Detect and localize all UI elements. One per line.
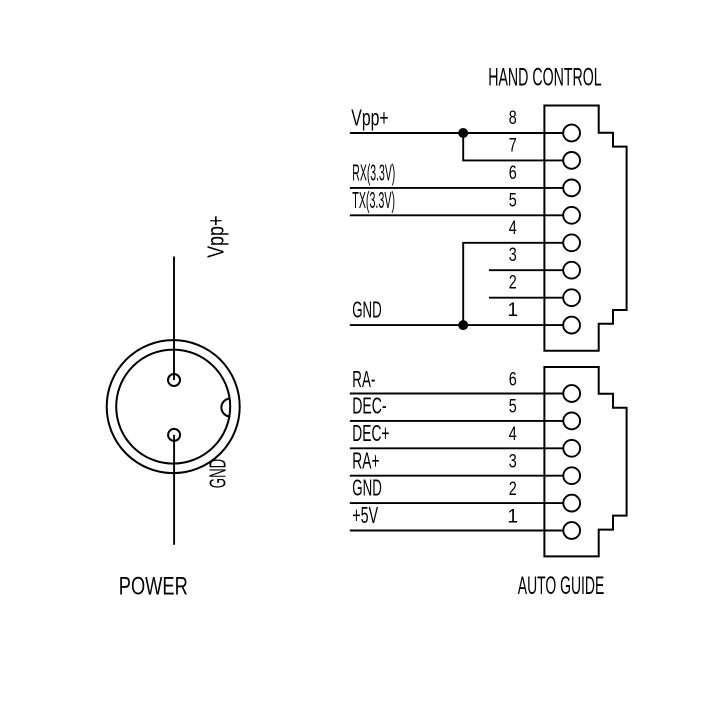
wire GND to pin 1	[350, 324, 563, 326]
pin 8 circle	[563, 125, 580, 142]
wire stub pin 3	[489, 269, 563, 271]
svg-text:6: 6	[509, 369, 517, 390]
svg-text:RA-: RA-	[352, 366, 375, 392]
svg-text:Vpp+: Vpp+	[351, 105, 388, 131]
pin 4 circle AUTO GUIDE	[563, 440, 580, 457]
svg-text:GND: GND	[352, 297, 382, 323]
svg-text:AUTO GUIDE: AUTO GUIDE	[518, 572, 605, 600]
pin 1 circle	[563, 317, 580, 334]
svg-text:TX(3.3V): TX(3.3V)	[352, 187, 395, 213]
svg-text:3: 3	[509, 245, 517, 266]
wire DEC- to pin 5	[350, 420, 564, 422]
power plug outer circle	[107, 340, 240, 473]
svg-text:GND: GND	[205, 459, 231, 488]
wire stub pin 2	[489, 297, 563, 299]
connector J1 HAND CONTROL body	[544, 106, 626, 351]
svg-text:HAND CONTROL: HAND CONTROL	[488, 64, 602, 92]
svg-text:8: 8	[509, 108, 517, 129]
junction dot GND	[458, 320, 468, 330]
wire GND lead out of power plug	[173, 435, 175, 545]
pin 6 circle AUTO GUIDE	[563, 385, 580, 402]
wire pin 4 with vertical drop to GND junction	[463, 243, 563, 325]
pin 3 circle AUTO GUIDE	[563, 467, 580, 484]
pin 2 circle	[563, 289, 580, 306]
svg-text:DEC-: DEC-	[352, 393, 386, 419]
wire DEC+ to pin 4	[350, 447, 564, 449]
pin 7 circle	[563, 152, 580, 169]
svg-text:4: 4	[509, 424, 517, 445]
svg-text:3: 3	[509, 452, 517, 473]
svg-text:6: 6	[509, 163, 517, 184]
svg-text:5: 5	[509, 190, 517, 211]
wire Vpp+ to pin 8	[350, 132, 563, 134]
wire RA+ to pin 3	[350, 475, 564, 477]
power plug pin Vpp+	[168, 374, 180, 386]
wire TX to pin 5	[350, 214, 563, 216]
svg-text:GND: GND	[352, 475, 382, 501]
pin 1 circle AUTO GUIDE	[563, 522, 580, 539]
power plug inner circle	[116, 350, 230, 464]
svg-text:Vpp+: Vpp+	[203, 216, 229, 258]
svg-text:+5V: +5V	[352, 502, 378, 528]
svg-text:7: 7	[509, 135, 517, 156]
wire branch vertical to pin 7	[463, 133, 563, 160]
svg-text:5: 5	[509, 397, 517, 418]
wire GND to pin 2	[350, 502, 564, 504]
pin 2 circle AUTO GUIDE	[563, 495, 580, 512]
wire RA- to pin 6	[350, 393, 564, 395]
junction dot Vpp+	[458, 128, 468, 138]
svg-text:4: 4	[509, 218, 517, 239]
svg-text:2: 2	[509, 273, 517, 294]
pin 3 circle	[563, 262, 580, 279]
svg-text:1: 1	[507, 506, 518, 527]
pin 4 circle	[563, 234, 580, 251]
connector J2 AUTO GUIDE body	[544, 367, 626, 556]
svg-text:2: 2	[509, 479, 517, 500]
power plug pin GND	[168, 429, 180, 441]
pin 5 circle AUTO GUIDE	[563, 413, 580, 430]
svg-text:POWER: POWER	[119, 572, 188, 600]
pin 6 circle	[563, 180, 580, 197]
svg-text:DEC+: DEC+	[352, 420, 389, 446]
wire +5V to pin 1	[350, 530, 564, 532]
pin 5 circle	[563, 207, 580, 224]
power plug key notch	[221, 399, 230, 417]
svg-text:1: 1	[507, 300, 518, 321]
wire Vpp+ lead into power plug	[173, 257, 175, 381]
wire RX to pin 6	[350, 187, 563, 189]
svg-text:RA+: RA+	[352, 447, 379, 473]
svg-text:RX(3.3V): RX(3.3V)	[352, 160, 395, 186]
